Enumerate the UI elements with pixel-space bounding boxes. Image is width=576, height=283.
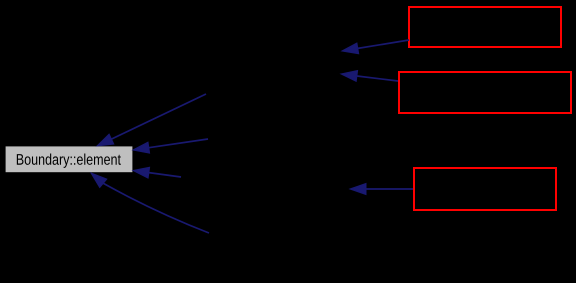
edge C: short arrow from middle node into right edge of Boundary::element: [133, 167, 181, 178]
node Boundary::element (gray main node): [6, 146, 133, 172]
edge E: arrow from red box 1 to upper middle node: [342, 40, 409, 54]
red box 2 (middle right undocumented node): [399, 72, 571, 113]
edge A: arrow from upper middle node to Boundary::element top: [97, 94, 206, 146]
edge G: horizontal arrow from red box 3 to lower middle node: [350, 184, 413, 195]
red box 1 (top right undocumented node): [409, 7, 561, 47]
edge B: arrow from middle node into right edge of Boundary::element: [133, 139, 208, 153]
edge D: curved arrow from lower middle node to bottom of Boundary::element: [91, 173, 209, 233]
edge F: arrow from red box 2 to middle node: [341, 71, 398, 82]
red box 3 (lower right undocumented node): [414, 168, 556, 210]
